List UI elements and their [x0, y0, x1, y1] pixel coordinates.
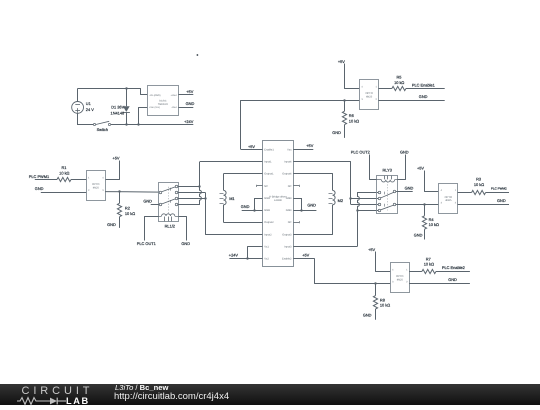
wire Input3 to relay RLY3 riser T1-T4: [293, 192, 378, 246]
junction top rail / D1: [125, 87, 127, 89]
svg-text:Enable1: Enable1: [264, 149, 274, 152]
motor M2 winding: [329, 190, 344, 204]
svg-text:Switch: Switch: [97, 127, 108, 132]
+5V flag at DC/DC +Vout: [178, 89, 193, 95]
svg-text:Output2: Output2: [264, 221, 274, 224]
svg-text:4N25: 4N25: [366, 96, 373, 99]
resistor R4 10k pulldown: [422, 204, 439, 239]
resistor R6 10k pulldown: [342, 101, 359, 138]
opto-isolator U6: [391, 263, 410, 293]
svg-text:H-Bridge driver: H-Bridge driver: [269, 196, 287, 199]
svg-text:PLC Enable1: PLC Enable1: [412, 83, 435, 88]
svg-text:R2: R2: [125, 205, 130, 210]
svg-text:R1: R1: [62, 165, 67, 170]
motor M1 winding: [220, 174, 235, 223]
svg-text:GND: GND: [286, 209, 292, 212]
opto-isolator U7: [439, 184, 458, 214]
wire opto U5 pin2 GND: [378, 94, 444, 100]
wire Output4 to M2 top: [293, 174, 333, 191]
voltage source U1 24V: [72, 101, 95, 113]
wire U1 top to node: [77, 89, 79, 102]
wire GND jumper left: [242, 198, 263, 211]
svg-text:24 V: 24 V: [86, 107, 94, 112]
junction GND jumper right: [300, 209, 302, 211]
svg-text:PLC Enable2: PLC Enable2: [442, 265, 465, 270]
svg-text:+5V: +5V: [368, 247, 375, 252]
svg-text:GND: GND: [497, 198, 506, 203]
junction T2-T3 riser: [204, 197, 206, 199]
svg-text:GND: GND: [419, 94, 428, 99]
svg-text:M1: M1: [229, 196, 234, 201]
svg-text:GND: GND: [107, 222, 116, 227]
svg-text:GND: GND: [241, 204, 250, 209]
wire relay throw T2: [178, 192, 206, 194]
svg-text:Output4: Output4: [282, 173, 292, 176]
wire opto U6 pin2 GND: [409, 277, 470, 283]
svg-text:+24V: +24V: [229, 253, 239, 258]
flag GND input: [35, 186, 87, 192]
svg-text:Vs2: Vs2: [264, 258, 269, 261]
relay RL1/2 coil: [158, 214, 178, 221]
CircuitLab logo: [22, 385, 94, 397]
svg-text:R8: R8: [380, 297, 385, 302]
wire +24V to Vs1/Vs2: [229, 247, 263, 259]
svg-text:10 kΩ: 10 kΩ: [349, 119, 359, 124]
svg-text:10 kΩ: 10 kΩ: [474, 182, 484, 187]
junction riser / T4: [356, 209, 358, 211]
svg-text:Enable2: Enable2: [282, 258, 292, 261]
svg-text:+5V: +5V: [112, 156, 119, 161]
svg-text:PLC PWM2: PLC PWM2: [491, 187, 507, 191]
+5V flag at opto U7 pin4: [417, 166, 439, 192]
wire riser T1-T4 with hops to Input1: [200, 162, 263, 205]
svg-text:D1 36V: D1 36V: [111, 105, 124, 110]
svg-text:Input3: Input3: [284, 246, 292, 249]
svg-text:NC: NC: [288, 185, 292, 188]
junction Input4 riser / T2: [349, 197, 351, 199]
wire coil to GND flag: [179, 217, 191, 247]
+5V flag at Vss: [293, 143, 313, 150]
junction R8 pulldown: [374, 282, 376, 284]
wire opto U7 pin2 GND: [458, 198, 509, 205]
svg-text:GND: GND: [414, 233, 423, 238]
resistor R5 10k: [378, 74, 444, 90]
relay RL1/2 pole contacts: [159, 191, 162, 206]
opto-isolator U5: [360, 80, 379, 110]
svg-text:DC/DC: DC/DC: [159, 99, 167, 102]
wire U1 bottom: [78, 113, 95, 125]
junction GND jumper left: [253, 209, 255, 211]
svg-text:NC: NC: [288, 221, 292, 224]
resistor R2 10k pulldown: [117, 192, 135, 228]
svg-text:R6: R6: [349, 113, 354, 118]
svg-text:PLC PWM1: PLC PWM1: [29, 174, 49, 179]
svg-text:-Vin (GND): -Vin (GND): [149, 94, 161, 97]
junction R6 pulldown: [343, 99, 345, 101]
svg-text:+5V: +5V: [248, 144, 255, 149]
resistor R7 10k: [409, 256, 470, 273]
relay RLY3 pole contacts: [393, 190, 396, 206]
wire top rail to DC/DC -Vin: [78, 89, 148, 95]
resistor R8 10k pulldown: [373, 283, 390, 320]
wire relay throw T4: [178, 204, 200, 206]
H-bridge driver U3 L293D: [257, 141, 300, 267]
stray dot annotation: [197, 54, 199, 56]
wire R1 to opto U2 pin1: [71, 179, 87, 181]
wire relay throw T3: [178, 198, 206, 200]
wire Enable2 to opto U6 pin3 net: [293, 259, 390, 284]
svg-text:R5: R5: [397, 74, 402, 79]
svg-text:10 kΩ: 10 kΩ: [394, 80, 404, 85]
junction R4 pulldown: [423, 203, 425, 205]
flag PLC OUT2 to RLY3 coil: [351, 150, 377, 180]
resistor R3 10k: [458, 176, 509, 194]
svg-text:R4: R4: [429, 217, 435, 222]
junction +Vin branch: [137, 123, 139, 125]
+5V flag at opto U6 pin4: [368, 247, 390, 271]
svg-text:10 kΩ: 10 kΩ: [59, 170, 69, 175]
+5V flag at opto U5 pin4: [338, 59, 360, 89]
svg-text:RL1/2: RL1/2: [165, 224, 175, 229]
svg-text:L293D: L293D: [274, 199, 282, 202]
svg-text:GND: GND: [181, 241, 190, 246]
junction D1 / +24V rail: [125, 123, 127, 125]
svg-text:4N25: 4N25: [397, 278, 404, 281]
svg-text:GND: GND: [332, 130, 341, 135]
svg-text:GND: GND: [264, 209, 270, 212]
diode D1 1N4148: [111, 89, 130, 126]
svg-text:GND: GND: [143, 199, 152, 204]
wire M1 top to Output1: [223, 173, 262, 175]
svg-text:U1: U1: [86, 101, 91, 106]
svg-text:GND: GND: [35, 186, 44, 191]
relay RL1/2 body: [159, 183, 179, 222]
junction T1 / Input1 riser: [198, 185, 200, 187]
wire opto U2 pin3 to relay RL1/2 pole A: [105, 191, 160, 194]
svg-text:+5V: +5V: [338, 59, 345, 64]
svg-text:GND: GND: [405, 185, 414, 190]
svg-text:PLC OUT2: PLC OUT2: [351, 150, 370, 155]
switch SW1: [93, 121, 110, 132]
relay RLY3 body: [377, 176, 398, 214]
svg-text:+24V: +24V: [184, 119, 194, 124]
wire M2 bottom to Output3: [293, 205, 333, 235]
flag PLC PWM1: [29, 174, 57, 180]
svg-text:GND: GND: [448, 277, 457, 282]
wire M1 bottom to Output2: [223, 222, 262, 224]
svg-text:NC: NC: [264, 185, 268, 188]
relay RL1/2 switch arms: [162, 187, 175, 204]
svg-text:GND: GND: [400, 150, 409, 155]
junction Vs2: [246, 257, 248, 259]
svg-text:GND: GND: [307, 202, 316, 207]
junction R2 pulldown: [118, 190, 120, 192]
wire Input4 to relay RLY3 throws T2-T3: [293, 162, 378, 205]
svg-text:+5V: +5V: [306, 143, 313, 148]
svg-text:Vss: Vss: [287, 149, 292, 152]
svg-text:R3: R3: [476, 176, 481, 181]
svg-text:R7: R7: [426, 256, 431, 261]
svg-text:4N25: 4N25: [445, 199, 452, 202]
svg-text:GND: GND: [186, 101, 195, 106]
relay RLY3 coil: [377, 176, 398, 182]
svg-text:10 kΩ: 10 kΩ: [380, 303, 390, 308]
svg-text:Input2: Input2: [264, 233, 272, 236]
svg-text:Output1: Output1: [264, 173, 274, 176]
wire GND jumper right: [293, 198, 316, 211]
svg-text:Input1: Input1: [264, 161, 272, 164]
svg-text:Output3: Output3: [282, 233, 292, 236]
DC/DC converter module: [148, 86, 179, 116]
svg-text:-Vout: -Vout: [171, 106, 177, 109]
flag GND at relay RL1/2 pole B: [143, 199, 159, 205]
svg-text:GND: GND: [363, 312, 372, 317]
wire +24V rail bottom: [111, 124, 193, 126]
wire RLY3 pole 2 to opto U7 pin3: [396, 204, 439, 206]
GND flag at DC/DC -Vout: [178, 101, 194, 107]
svg-text:4N25: 4N25: [93, 187, 100, 190]
svg-text:+5V: +5V: [302, 252, 309, 257]
svg-text:M2: M2: [338, 198, 343, 203]
wire Enable1 to opto U5 pin3 net: [241, 101, 360, 150]
wire coil to PLC OUT1 flag: [137, 217, 159, 247]
+5V flag at opto U2 pin4: [106, 156, 120, 180]
svg-text:Vs1: Vs1: [264, 246, 269, 249]
svg-text:PLC OUT1: PLC OUT1: [137, 241, 156, 246]
svg-text:Input4: Input4: [284, 161, 292, 164]
svg-text:10 kΩ: 10 kΩ: [429, 222, 439, 227]
svg-text:1N4148: 1N4148: [111, 111, 125, 116]
svg-text:+Vout: +Vout: [171, 94, 177, 97]
GND flag at RLY3 pole 1: [396, 185, 413, 191]
svg-text:+5V: +5V: [417, 166, 424, 171]
relay RLY3 throw contacts: [378, 191, 381, 212]
flag GND to RLY3 coil: [398, 150, 409, 180]
svg-text:RLY3: RLY3: [382, 167, 391, 172]
svg-text:10 kΩ: 10 kΩ: [424, 262, 434, 267]
wire branch to DC/DC +Vin: [139, 108, 148, 125]
relay RL1/2 throw contacts: [175, 185, 178, 206]
resistor R1 10k: [57, 165, 71, 182]
wire riser T2-T3 down to Input2: [206, 193, 263, 235]
relay RLY3 switch arms: [381, 192, 394, 210]
svg-text:10 kΩ: 10 kΩ: [125, 211, 135, 216]
svg-text:TMR2422: TMR2422: [158, 103, 169, 106]
wire relay throw T1: [178, 186, 200, 188]
svg-text:+Vin (Vcc): +Vin (Vcc): [149, 106, 160, 109]
opto-isolator U2: [87, 171, 106, 201]
svg-text:+5V: +5V: [186, 89, 193, 94]
